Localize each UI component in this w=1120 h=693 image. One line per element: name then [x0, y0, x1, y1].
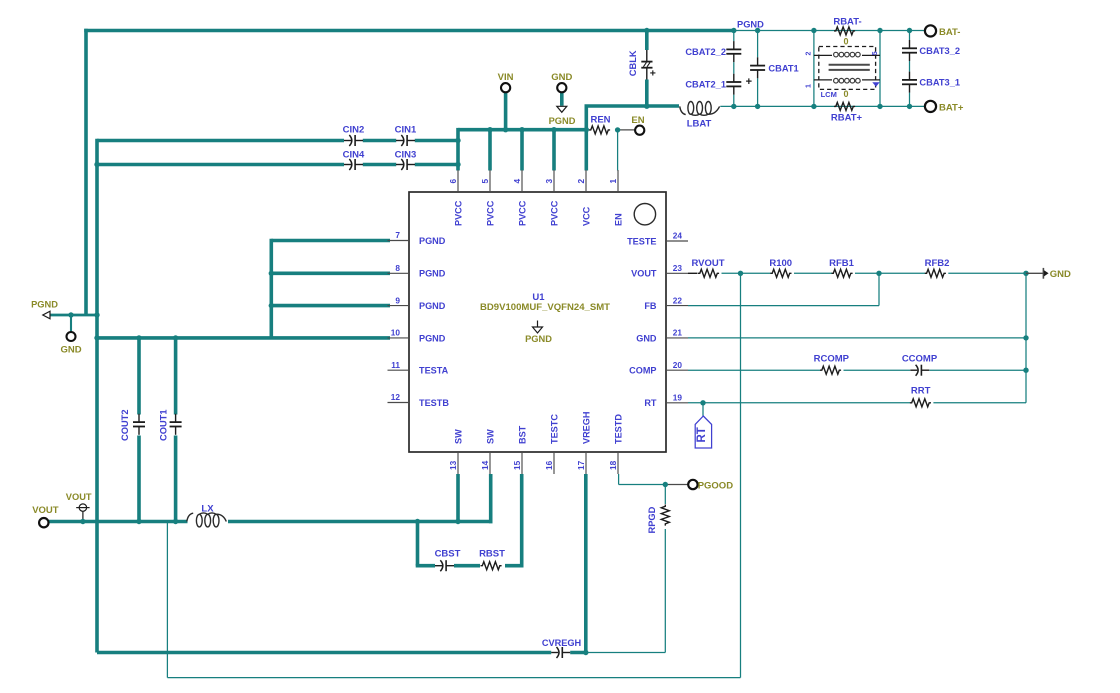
power PGND top label	[549, 116, 576, 126]
junction CIN row1 right	[455, 138, 460, 143]
port GND circle top	[557, 83, 566, 92]
wire battery bottom thin	[720, 105, 925, 107]
wire PGND pins vertical	[269, 239, 273, 338]
wire pin6 drop	[456, 128, 460, 171]
svg-text:CVREGH: CVREGH	[542, 638, 582, 648]
svg-text:CCOMP: CCOMP	[902, 353, 938, 364]
U1 pin 12 TESTB	[388, 392, 450, 408]
capacitor CIN1	[396, 135, 415, 146]
U1 pin 11 TESTA	[388, 360, 449, 376]
svg-text:EN: EN	[631, 115, 644, 126]
junction RT node	[700, 400, 705, 405]
wire CBLK lower	[645, 80, 649, 107]
port VOUT circle	[39, 518, 48, 527]
wire RPGD upper	[664, 485, 666, 505]
U1 pin 21 GND	[636, 328, 688, 344]
wire CIN row2 segment a	[97, 163, 344, 167]
svg-text:GND: GND	[636, 333, 657, 343]
svg-text:13: 13	[448, 460, 458, 470]
port GND left label	[60, 345, 81, 356]
junction pin4 bus	[519, 127, 524, 132]
resistor R100	[770, 269, 791, 277]
junction GND flag node	[1023, 271, 1028, 276]
svg-text:SW: SW	[485, 429, 495, 444]
wire pin13 drop	[456, 474, 460, 522]
capacitor CBAT2_2 label	[685, 47, 726, 57]
svg-text:18: 18	[608, 460, 618, 470]
junction COUT1 top	[173, 335, 178, 340]
wire ground vertical x97	[95, 139, 99, 653]
wire top rail to LBAT	[585, 104, 680, 108]
svg-text:14: 14	[480, 460, 490, 470]
wire COUT1 upper	[174, 338, 178, 415]
junction VREGH node	[583, 650, 588, 655]
power symbol PGND left	[43, 311, 50, 319]
port BAT+ circle	[925, 101, 936, 112]
port PGOOD label	[698, 480, 734, 491]
svg-text:10: 10	[391, 328, 401, 338]
wire pin3 drop	[552, 130, 556, 171]
svg-text:PGND: PGND	[549, 116, 576, 126]
inductor LBAT	[680, 102, 720, 116]
svg-text:BAT+: BAT+	[939, 103, 964, 114]
svg-text:4: 4	[512, 179, 522, 184]
capacitor CIN4	[344, 159, 363, 170]
capacitor CVREGH	[551, 647, 570, 658]
wire GND row	[688, 337, 1026, 339]
wire GND port stub	[560, 92, 564, 106]
resistor RFB1	[832, 269, 853, 277]
capacitor CBAT2_1	[726, 74, 752, 95]
svg-text:+: +	[746, 76, 752, 88]
U1 internal PGND text	[525, 334, 552, 344]
port BAT+ label	[939, 103, 964, 114]
junction CBST tee	[415, 519, 420, 524]
global label GND text	[1050, 269, 1071, 280]
svg-text:CIN4: CIN4	[343, 149, 365, 160]
U1 pin 16 TESTC	[544, 414, 560, 474]
wire RT row a	[688, 402, 910, 404]
svg-text:PGND: PGND	[525, 334, 552, 344]
U1 pin 14 SW	[480, 429, 496, 474]
capacitor CBAT3_1 label	[919, 78, 960, 88]
svg-text:RT: RT	[696, 427, 708, 442]
svg-text:PVCC: PVCC	[549, 200, 559, 226]
port EN circle	[635, 126, 644, 135]
svg-text:7: 7	[395, 230, 400, 240]
svg-text:5: 5	[480, 179, 490, 184]
wire RVOUT to junction	[722, 272, 742, 274]
svg-text:PVCC: PVCC	[453, 200, 463, 226]
junction CIN row2 left	[94, 162, 99, 167]
svg-text:GND: GND	[1050, 269, 1071, 280]
capacitor CCOMP	[910, 365, 929, 376]
svg-text:RFB1: RFB1	[829, 258, 855, 269]
capacitor CIN4 label	[343, 149, 365, 160]
svg-text:RBST: RBST	[479, 549, 505, 560]
capacitor CIN1 label	[395, 125, 417, 136]
svg-text:R100: R100	[769, 258, 792, 269]
svg-text:GND: GND	[551, 72, 572, 83]
svg-text:RCOMP: RCOMP	[814, 353, 850, 364]
capacitor COUT2	[133, 414, 145, 435]
global label RT text	[696, 427, 708, 442]
svg-text:16: 16	[544, 460, 554, 470]
U1 pin 6 PVCC	[448, 170, 464, 226]
wire VOUT sense left vertical	[166, 522, 168, 678]
junction VIN bus	[503, 127, 508, 132]
junction VOUT flag	[80, 519, 85, 524]
wire CIN row2 segment b	[363, 163, 396, 167]
U1 pin 13 SW	[448, 429, 464, 474]
svg-text:11: 11	[391, 360, 400, 370]
wire RPGD lower	[664, 529, 666, 653]
wire pin18 row	[619, 484, 666, 486]
U1 pin 4 PVCC	[512, 170, 528, 226]
wire VOUT resistor chain c	[855, 272, 925, 274]
svg-text:CBST: CBST	[435, 549, 461, 560]
svg-text:20: 20	[673, 360, 683, 370]
wire COUT1 lower	[174, 436, 178, 522]
wire CIN row1 segment a	[97, 139, 344, 143]
junction EN node	[615, 127, 620, 132]
svg-text:PGND: PGND	[737, 19, 764, 29]
wire PGND flag row	[50, 314, 97, 317]
resistor RBAT-	[834, 27, 855, 35]
wire CBST row a	[416, 564, 435, 568]
svg-text:VREGH: VREGH	[581, 412, 591, 444]
svg-text:PGND: PGND	[419, 301, 446, 311]
junction RFB node	[876, 271, 881, 276]
wire VREGH node row	[586, 652, 666, 654]
junction pin10 row left	[94, 335, 99, 340]
svg-text:9: 9	[395, 295, 400, 305]
capacitor CBAT1 label	[768, 63, 798, 73]
svg-text:CBAT3_1: CBAT3_1	[919, 78, 960, 88]
svg-text:RVOUT: RVOUT	[691, 258, 724, 269]
wire pin4 drop	[520, 130, 524, 171]
capacitor CBST label	[435, 549, 461, 560]
op-amp U1 BD9V100MUF body	[409, 192, 666, 452]
wire FB vertical	[878, 273, 880, 305]
capacitor CBAT3_2 label	[919, 46, 960, 56]
svg-text:TESTB: TESTB	[419, 398, 449, 408]
wire EN pin1 drop	[617, 130, 619, 171]
wire COUT2 upper	[137, 338, 141, 415]
wire CIN row1 segment b	[363, 139, 396, 143]
resistor RBAT+	[834, 102, 855, 110]
wire PGND top rail	[84, 29, 734, 33]
net label PGND top right	[737, 19, 764, 29]
capacitor COUT1	[170, 414, 182, 435]
svg-text:19: 19	[673, 393, 683, 403]
svg-text:23: 23	[673, 263, 683, 273]
junction RVOUT node	[738, 271, 743, 276]
U1 pin 7 PGND	[388, 230, 446, 246]
svg-text:0: 0	[843, 36, 848, 46]
svg-text:GND: GND	[60, 345, 81, 356]
junction pin9 tee	[269, 303, 274, 308]
resistor REN	[589, 126, 610, 134]
resistor RRT	[910, 399, 931, 407]
svg-text:SW: SW	[453, 429, 463, 444]
junction COUT1 bottom	[173, 519, 178, 524]
wire pin5 drop	[488, 130, 492, 171]
capacitor CIN2	[344, 135, 363, 146]
junction pin3 bus	[551, 127, 556, 132]
inductor LX	[187, 513, 227, 527]
wire VOUT sense vertical	[740, 273, 742, 677]
U1 pin 17 VREGH	[576, 412, 592, 474]
svg-text:LBAT: LBAT	[687, 118, 712, 129]
U1 pin 3 PVCC	[544, 170, 560, 226]
wire RT row b	[933, 402, 1026, 404]
wire COMP row a	[688, 369, 821, 371]
svg-text:12: 12	[391, 392, 401, 402]
resistor RVOUT label	[691, 258, 724, 269]
junction LCM left top	[811, 28, 816, 33]
svg-text:2: 2	[576, 179, 586, 184]
junction LCM right bottom	[877, 104, 882, 109]
LCM pin 2	[806, 52, 813, 56]
svg-text:LCM: LCM	[821, 90, 837, 99]
capacitor COUT2 label	[120, 409, 130, 441]
port BAT- label	[939, 27, 960, 38]
junction CIN row2 right	[455, 162, 460, 167]
svg-text:5: 5	[872, 51, 879, 55]
resistor RBAT+ label	[831, 113, 863, 124]
U1 pin 8 PGND	[388, 263, 446, 279]
svg-text:RPGD: RPGD	[647, 506, 657, 533]
wire pin9 row	[271, 304, 390, 308]
wire GND port left stub	[70, 315, 72, 332]
U1 pin 23 VOUT	[631, 263, 688, 279]
resistor RBAT- value 0	[843, 36, 848, 46]
port PGOOD circle	[688, 480, 697, 489]
power VOUT flag label	[66, 492, 92, 502]
junction COUT2 bottom	[136, 519, 141, 524]
inductor LBAT label	[687, 118, 712, 129]
wire VOUT flag stub	[82, 511, 84, 521]
svg-text:PVCC: PVCC	[517, 200, 527, 226]
capacitor COUT1 label	[159, 409, 169, 441]
svg-text:EN: EN	[613, 213, 623, 226]
capacitor CBAT2_1 label	[685, 80, 726, 90]
resistor RFB2 label	[925, 258, 950, 269]
resistor RBST	[481, 562, 502, 570]
capacitor CBAT2_2	[726, 41, 741, 62]
svg-text:TESTE: TESTE	[627, 236, 656, 246]
svg-text:PGND: PGND	[419, 236, 446, 246]
capacitor CBST	[435, 560, 454, 571]
U1 pin1 indicator circle	[634, 204, 655, 225]
capacitor CBAT1	[750, 57, 765, 78]
capacitor CIN3	[396, 159, 415, 170]
resistor RBAT- label	[833, 16, 861, 27]
svg-text:PGND: PGND	[419, 269, 446, 279]
junction PGND flag	[94, 312, 99, 317]
svg-text:PGND: PGND	[419, 333, 446, 343]
junction CBAT2 bottom	[731, 104, 736, 109]
wire VOUT resistor chain a	[741, 272, 771, 274]
svg-text:8: 8	[395, 263, 400, 273]
wire junction to PGOOD	[665, 484, 688, 486]
wire COMP row b	[844, 369, 911, 371]
capacitor CVREGH label	[542, 638, 582, 648]
wire COUT2 lower	[137, 436, 141, 522]
junction CBAT3 top	[907, 28, 912, 33]
global label RT flag	[695, 416, 711, 448]
wire junction to EN port	[618, 129, 635, 131]
svg-text:+: +	[650, 68, 656, 80]
svg-text:CIN2: CIN2	[343, 125, 365, 136]
power symbol PGND under GND port	[557, 106, 567, 112]
wire CBST drop	[416, 520, 420, 566]
resistor RPGD	[661, 505, 669, 526]
svg-text:COUT2: COUT2	[120, 409, 130, 441]
junction GND row right	[1023, 335, 1028, 340]
wire VOUT row left	[49, 520, 188, 524]
resistor RFB2	[925, 269, 946, 277]
inductor LX label	[201, 503, 214, 514]
port VIN label	[498, 72, 514, 83]
U1 pin 1 EN	[608, 170, 624, 226]
wire pin18 drop	[618, 474, 620, 485]
svg-text:21: 21	[673, 328, 683, 338]
wire pin10 row	[97, 336, 390, 340]
svg-text:1: 1	[608, 179, 618, 184]
junction VCC bus	[584, 127, 589, 132]
junction CBAT1 bottom	[755, 104, 760, 109]
resistor RCOMP label	[814, 353, 850, 364]
svg-text:VOUT: VOUT	[631, 269, 657, 279]
capacitor CIN3 label	[395, 149, 417, 160]
capacitor CBAT3_2	[902, 40, 917, 61]
wire VOUT resistor chain d	[948, 272, 1026, 274]
svg-text:3: 3	[544, 179, 554, 184]
junction pin13 tee	[455, 519, 460, 524]
svg-text:COMP: COMP	[629, 366, 656, 376]
wire VOUT row right	[228, 520, 493, 524]
wire CIN row1 segment c	[415, 139, 458, 143]
junction pin8 tee	[269, 271, 274, 276]
capacitor CIN2 label	[343, 125, 365, 136]
wire left vertical PGND	[84, 29, 88, 315]
svg-text:VOUT: VOUT	[66, 492, 92, 502]
U1 reference U1	[532, 292, 545, 303]
capacitor CCOMP label	[902, 353, 938, 364]
wire VIN port drop	[504, 92, 508, 130]
wire VOUT resistor chain b	[794, 272, 832, 274]
svg-text:REN: REN	[590, 114, 610, 125]
wire VCC vertical	[584, 106, 588, 171]
svg-text:2: 2	[806, 52, 813, 56]
resistor RPGD label	[647, 506, 657, 533]
svg-text:CIN1: CIN1	[395, 125, 417, 136]
svg-text:COUT1: COUT1	[159, 409, 169, 441]
svg-text:6: 6	[448, 179, 458, 184]
svg-text:24: 24	[673, 231, 683, 241]
wire pin8 row	[271, 271, 390, 275]
transformer LCM	[814, 47, 880, 90]
svg-text:CBAT1: CBAT1	[768, 63, 798, 73]
wire CBST row b	[454, 564, 480, 568]
junction CBLK bottom	[644, 104, 649, 109]
junction COMP row right	[1023, 368, 1028, 373]
wire CBAT3 branch	[909, 31, 911, 107]
U1 pin 18 TESTD	[608, 414, 624, 474]
wire bottom sense row	[167, 677, 740, 679]
wire COMP row c	[929, 369, 1026, 371]
svg-text:RBAT+: RBAT+	[831, 113, 863, 124]
wire FB row	[688, 305, 879, 307]
capacitor CBAT3_1	[902, 72, 917, 93]
svg-text:TESTA: TESTA	[419, 366, 449, 376]
resistor RVOUT	[688, 269, 719, 277]
svg-text:15: 15	[512, 460, 522, 470]
wire pin14 drop	[489, 474, 493, 523]
svg-text:RT: RT	[644, 398, 657, 408]
U1 pin 20 COMP	[629, 360, 688, 376]
wire CVREGH row	[97, 651, 551, 655]
U1 pin 5 PVCC	[480, 170, 496, 226]
U1 value BD9V100MUF_VQFN24_SMT	[480, 302, 610, 313]
resistor RFB1 label	[829, 258, 855, 269]
svg-text:CBAT2_2: CBAT2_2	[685, 47, 726, 57]
capacitor CBLK label	[628, 50, 638, 76]
svg-text:PVCC: PVCC	[485, 200, 495, 226]
U1 pin 9 PGND	[388, 295, 446, 311]
LCM pin 4	[872, 82, 879, 87]
junction CBAT3 bottom	[907, 104, 912, 109]
wire LCM left vertical	[813, 31, 815, 107]
svg-text:22: 22	[673, 295, 683, 305]
svg-text:LX: LX	[201, 503, 214, 514]
port EN label	[631, 115, 644, 126]
port VIN circle	[501, 83, 510, 92]
svg-text:0: 0	[843, 89, 848, 99]
svg-text:TESTC: TESTC	[549, 414, 559, 444]
svg-text:RBAT-: RBAT-	[833, 16, 861, 27]
junction COUT2 top	[136, 335, 141, 340]
svg-text:TESTD: TESTD	[613, 414, 623, 444]
port GND circle left	[67, 332, 76, 341]
svg-text:VOUT: VOUT	[32, 505, 59, 516]
svg-text:CBLK: CBLK	[628, 50, 638, 76]
svg-text:VCC: VCC	[581, 206, 591, 226]
svg-text:BAT-: BAT-	[939, 27, 960, 38]
wire LCM right vertical	[879, 31, 881, 107]
svg-text:FB: FB	[644, 301, 657, 311]
svg-text:17: 17	[576, 460, 586, 470]
resistor R100 label	[769, 258, 792, 269]
resistor RBAT+ value 0	[843, 89, 848, 99]
wire right gnd vertical	[1025, 273, 1027, 403]
LCM label	[821, 90, 837, 99]
svg-text:RRT: RRT	[911, 386, 931, 397]
svg-text:CIN3: CIN3	[395, 149, 417, 160]
wire CBAT2 branch	[733, 31, 735, 107]
U1 pin 22 FB	[644, 295, 688, 311]
wire CBST row c	[505, 564, 524, 568]
LCM pin 1	[806, 84, 813, 88]
junction LCM left bottom	[811, 104, 816, 109]
junction GND port left	[68, 312, 73, 317]
svg-text:RFB2: RFB2	[925, 258, 950, 269]
resistor RRT label	[911, 386, 931, 397]
U1 pin 15 BST	[512, 425, 528, 474]
svg-text:CBAT2_1: CBAT2_1	[685, 80, 726, 90]
